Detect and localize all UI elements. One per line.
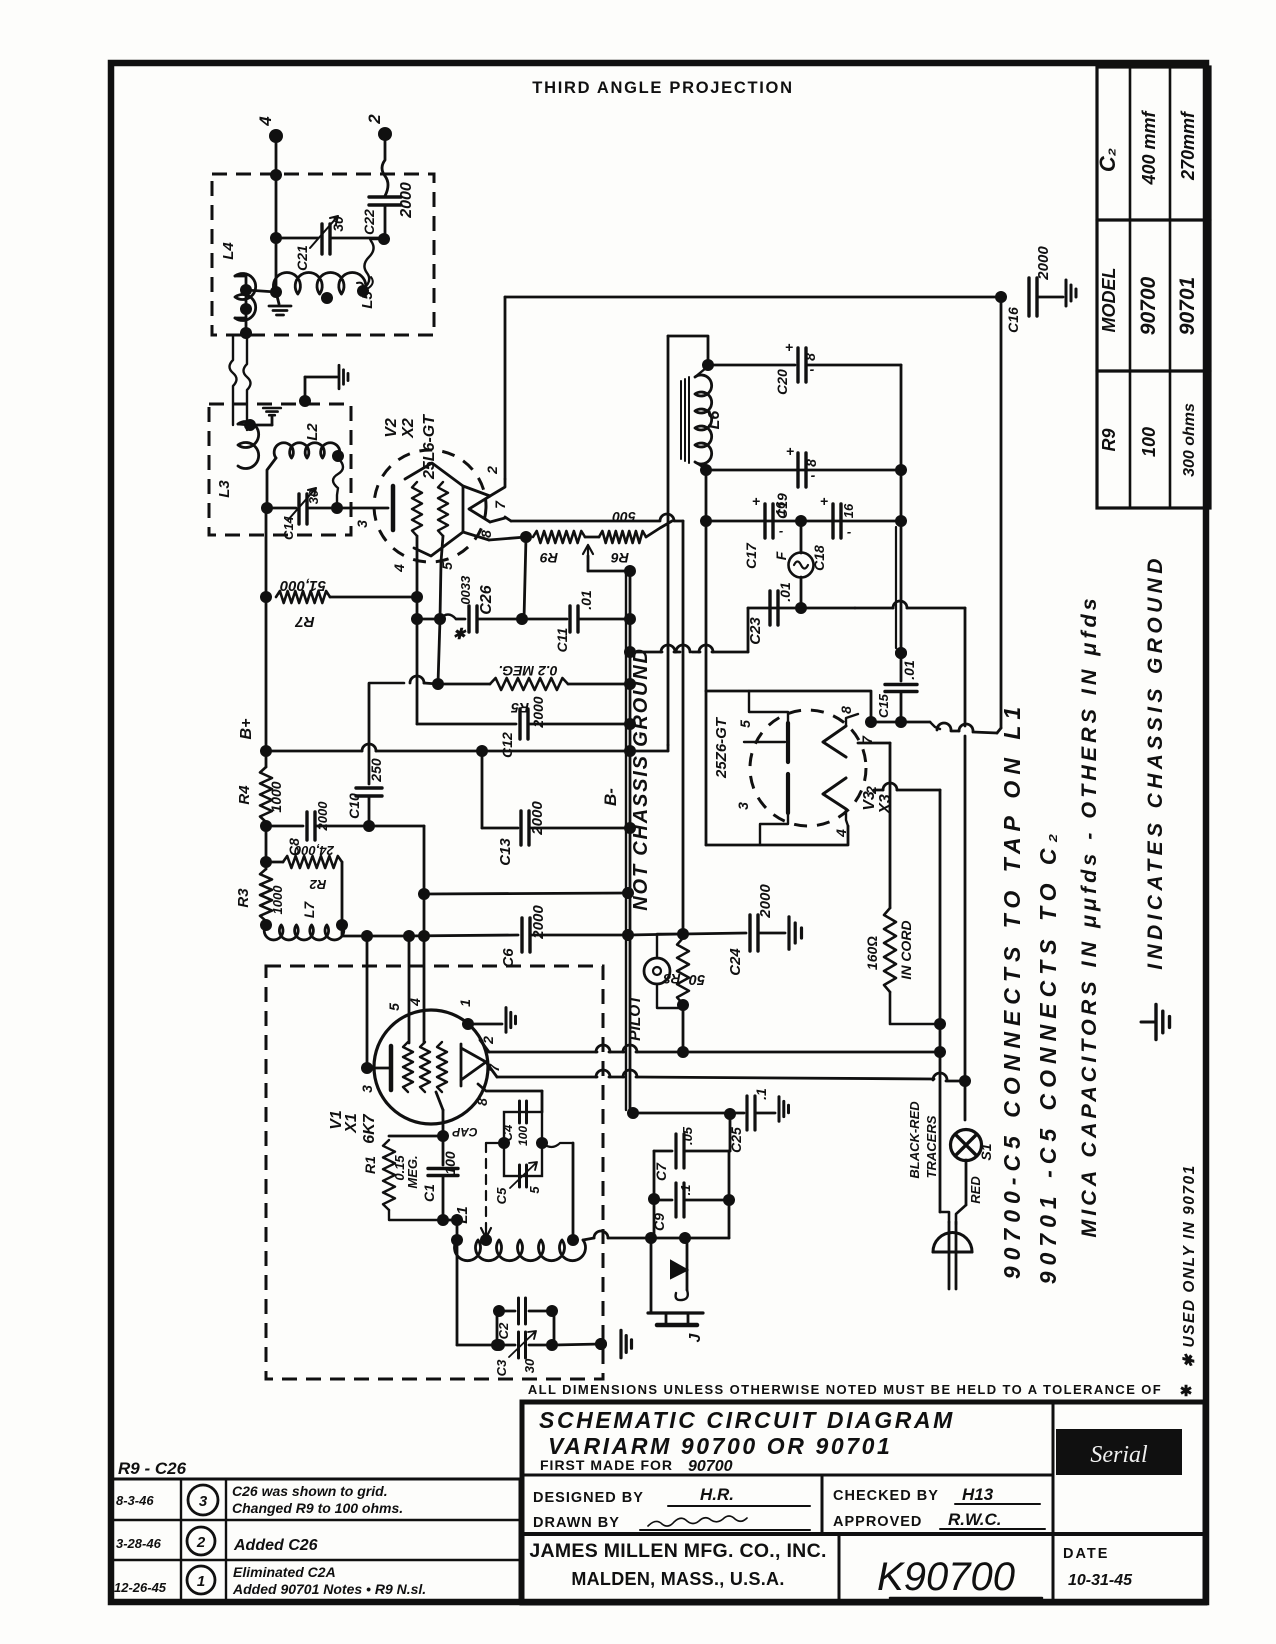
svg-text:✱ USED ONLY IN 90701: ✱ USED ONLY IN 90701 xyxy=(1181,1164,1198,1368)
V2 cathode xyxy=(391,486,396,530)
B- row xyxy=(424,893,628,894)
svg-text:R1: R1 xyxy=(362,1156,378,1174)
svg-text:1: 1 xyxy=(197,1573,205,1590)
svg-text:90700: 90700 xyxy=(1137,276,1160,335)
svg-text:6K7: 6K7 xyxy=(361,1113,378,1143)
svg-text:5: 5 xyxy=(527,1186,542,1194)
svg-text:C23: C23 xyxy=(747,617,764,645)
capacitor C15 xyxy=(895,647,907,659)
svg-text:3: 3 xyxy=(199,1493,208,1510)
wire terminal4 to L5 xyxy=(275,143,278,292)
V3 surround wiring xyxy=(706,691,871,717)
ground for L3 xyxy=(250,424,272,427)
svg-text:MALDEN, MASS., U.S.A.: MALDEN, MASS., U.S.A. xyxy=(571,1569,784,1589)
svg-text:NOT CHASSIS GROUND: NOT CHASSIS GROUND xyxy=(630,647,652,911)
svg-text:SCHEMATIC CIRCUIT DIAGRAM: SCHEMATIC CIRCUIT DIAGRAM xyxy=(539,1407,955,1433)
top row to C16 xyxy=(505,296,1001,299)
svg-text:C10: C10 xyxy=(346,793,362,819)
svg-text:C26 was shown to grid.: C26 was shown to grid. xyxy=(232,1483,388,1499)
link to L1 left xyxy=(443,1219,457,1222)
C16 drop wire xyxy=(1000,297,1003,728)
capacitor C13 xyxy=(481,751,484,828)
svg-text:8: 8 xyxy=(478,530,494,538)
svg-text:C7: C7 xyxy=(653,1162,669,1181)
svg-text:24,000: 24,000 xyxy=(293,843,335,858)
L6 bottom row xyxy=(700,464,712,476)
svg-text:90701 -C5 CONNECTS TO C₂: 90701 -C5 CONNECTS TO C₂ xyxy=(1035,828,1061,1285)
V3 pin5/3 internal leads xyxy=(749,691,788,723)
V2 pin5 bus xyxy=(440,562,441,619)
wire C14 to V2 pin3 xyxy=(337,507,388,510)
capacitor C26 xyxy=(417,618,440,621)
svg-text:+: + xyxy=(752,493,760,509)
svg-text:3: 3 xyxy=(359,1085,375,1093)
svg-text:C17: C17 xyxy=(743,542,759,569)
svg-text:DESIGNED BY: DESIGNED BY xyxy=(533,1490,644,1506)
svg-text:2000: 2000 xyxy=(530,696,546,728)
svg-text:L7: L7 xyxy=(301,901,317,919)
svg-text:R4: R4 xyxy=(236,785,253,805)
capacitor C23 xyxy=(768,591,771,625)
svg-text:✱: ✱ xyxy=(1180,1383,1193,1400)
wire terminal2 to C22 xyxy=(382,141,388,197)
capacitor C5 (trimmer) xyxy=(518,1165,521,1187)
svg-text:2: 2 xyxy=(365,114,384,125)
svg-text:R3: R3 xyxy=(235,888,252,908)
capacitor C8 row xyxy=(266,825,303,828)
svg-text:MODEL: MODEL xyxy=(1099,268,1119,333)
svg-text:C11: C11 xyxy=(554,627,570,652)
AC plug xyxy=(933,1233,972,1252)
svg-text:2: 2 xyxy=(196,1534,206,1551)
svg-text:8: 8 xyxy=(474,1098,490,1106)
chassis ground legend symbol xyxy=(1141,1021,1156,1024)
V1 shield box (dashed) xyxy=(266,966,603,1379)
S1 bus xyxy=(964,736,967,1076)
svg-text:3: 3 xyxy=(354,520,370,528)
svg-text:Eliminated C2A: Eliminated C2A xyxy=(233,1564,336,1580)
svg-text:100: 100 xyxy=(516,1126,530,1146)
V2 pin 7 lead xyxy=(490,518,505,522)
svg-text:C1: C1 xyxy=(421,1184,437,1202)
V2 pin 2 lead xyxy=(463,479,505,496)
L6 top lead xyxy=(668,336,708,361)
V3 pin2 to plug xyxy=(874,789,883,792)
svg-text:X2: X2 xyxy=(400,418,417,439)
C20 row xyxy=(708,364,795,367)
R6 wiper arrow xyxy=(583,545,593,556)
V2 pin 4 lead xyxy=(416,536,419,562)
svg-text:500: 500 xyxy=(612,509,636,525)
capacitor C22 xyxy=(369,195,401,198)
svg-text:C22: C22 xyxy=(361,209,377,235)
svg-text:25L6-GT: 25L6-GT xyxy=(421,414,438,480)
svg-text:8: 8 xyxy=(803,459,819,467)
resistor R8 xyxy=(677,938,689,1004)
capacitor C21 (trimmer) xyxy=(276,237,318,240)
F fuse circle xyxy=(795,515,807,527)
V3 heater to 160ohm xyxy=(858,742,890,745)
inductor L6 xyxy=(680,381,682,459)
svg-text:C9: C9 xyxy=(651,1213,667,1231)
svg-text:X1: X1 xyxy=(343,1113,360,1134)
svg-text:C21: C21 xyxy=(294,245,310,271)
svg-text:Changed R9 to 100 ohms.: Changed R9 to 100 ohms. xyxy=(232,1500,403,1516)
switch to plug xyxy=(965,1160,968,1205)
svg-text:16: 16 xyxy=(841,503,856,518)
svg-text:CHECKED BY: CHECKED BY xyxy=(833,1488,939,1504)
capacitor C4 xyxy=(518,1101,521,1123)
svg-text:L3: L3 xyxy=(216,480,233,498)
V1 pin 1 and ground xyxy=(462,1018,474,1030)
svg-text:R9: R9 xyxy=(1099,428,1119,451)
svg-text:C3: C3 xyxy=(494,1359,509,1376)
svg-text:X3: X3 xyxy=(877,794,894,815)
V1 pin3 xyxy=(361,1062,373,1074)
svg-text:1: 1 xyxy=(457,999,473,1007)
pin5 tie to R5 row xyxy=(438,619,440,684)
svg-text:C20: C20 xyxy=(774,369,790,395)
svg-text:L5: L5 xyxy=(359,291,376,309)
svg-text:4: 4 xyxy=(391,564,407,573)
svg-text:.1: .1 xyxy=(753,1088,769,1100)
ground in L4 box xyxy=(276,292,279,304)
V1 pin 8 xyxy=(478,1084,542,1091)
svg-text:FIRST MADE FOR: FIRST MADE FOR xyxy=(540,1457,673,1473)
svg-text:C2: C2 xyxy=(496,1322,511,1339)
svg-text:100: 100 xyxy=(1139,427,1159,457)
capacitor C20 xyxy=(796,348,799,382)
resistor R3 xyxy=(260,869,272,921)
svg-text:Added C26: Added C26 xyxy=(233,1537,318,1554)
title block frame xyxy=(522,1402,1205,1603)
svg-text:250: 250 xyxy=(368,758,384,783)
svg-text:30: 30 xyxy=(522,1358,537,1373)
svg-text:2000: 2000 xyxy=(398,182,415,219)
svg-text:DRAWN BY: DRAWN BY xyxy=(533,1515,620,1531)
V3 output row xyxy=(871,721,901,724)
svg-text:CAP: CAP xyxy=(451,1125,477,1139)
L1 left drop xyxy=(456,1240,459,1345)
resistor R1 xyxy=(389,1135,443,1138)
tube V3 envelope (dashed) xyxy=(750,710,866,826)
inductor L3 xyxy=(238,422,259,469)
svg-text:100: 100 xyxy=(442,1151,458,1175)
svg-text:5: 5 xyxy=(737,720,753,728)
svg-text:BLACK-RED: BLACK-RED xyxy=(907,1101,922,1179)
V3 cathode chevrons xyxy=(823,726,846,757)
svg-text:160Ω: 160Ω xyxy=(864,936,880,970)
capacitor C1 xyxy=(442,1136,445,1165)
svg-text:2: 2 xyxy=(480,1036,496,1045)
capacitor C14 (trimmer) xyxy=(267,507,296,510)
V1 plate chevron xyxy=(461,1044,486,1086)
V1 cathode xyxy=(389,1046,394,1090)
C4C5 right lead xyxy=(542,1143,573,1147)
svg-text:C₂: C₂ xyxy=(1095,148,1120,172)
svg-text:8: 8 xyxy=(802,353,818,361)
capacitor C25 xyxy=(745,1096,748,1130)
svg-text:270mmf: 270mmf xyxy=(1178,110,1198,181)
svg-text:R7: R7 xyxy=(295,613,315,630)
svg-text:16: 16 xyxy=(773,501,788,516)
svg-text:APPROVED: APPROVED xyxy=(833,1514,922,1530)
svg-text:25Z6-GT: 25Z6-GT xyxy=(713,716,730,779)
terminal 4 xyxy=(269,129,283,143)
svg-text:300 ohms: 300 ohms xyxy=(1181,403,1198,477)
model table xyxy=(1097,67,1210,508)
V1 pin 2 row xyxy=(480,1040,489,1052)
bus x630 upper xyxy=(629,571,632,619)
capacitor C6 xyxy=(520,918,523,952)
capacitor C2 xyxy=(497,1310,515,1313)
shield box L4 L5 xyxy=(212,174,434,335)
svg-text:3: 3 xyxy=(735,802,751,810)
wire C23 to B- bus xyxy=(630,651,662,654)
capacitor C17 xyxy=(763,504,766,538)
C23 row xyxy=(748,607,855,610)
svg-text:JAMES MILLEN MFG. CO., INC.: JAMES MILLEN MFG. CO., INC. xyxy=(529,1540,826,1562)
svg-text:DATE: DATE xyxy=(1063,1546,1109,1562)
bottom ground xyxy=(554,1344,601,1345)
svg-text:400 mmf: 400 mmf xyxy=(1139,109,1159,185)
svg-text:R9 - C26: R9 - C26 xyxy=(118,1459,187,1478)
switch S1 xyxy=(951,1130,982,1161)
L6 bus down xyxy=(705,470,708,521)
svg-text:1000: 1000 xyxy=(270,885,285,915)
svg-text:F: F xyxy=(773,551,789,560)
capacitor C11 xyxy=(522,618,567,621)
V2 plate riser to top row xyxy=(504,297,507,479)
cathode tie from R9 xyxy=(524,537,526,619)
svg-text:ALL DIMENSIONS UNLESS OTHERWIS: ALL DIMENSIONS UNLESS OTHERWISE NOTED MU… xyxy=(528,1382,1162,1397)
svg-text:+: + xyxy=(820,493,828,509)
svg-text:2000: 2000 xyxy=(315,801,330,832)
C17 C18 row xyxy=(706,520,901,523)
svg-text:INDICATES CHASSIS GROUND: INDICATES CHASSIS GROUND xyxy=(1144,554,1167,970)
svg-text:VARIARM 90700 OR 90701: VARIARM 90700 OR 90701 xyxy=(548,1433,892,1459)
svg-text:C16: C16 xyxy=(1005,307,1021,333)
capacitor C10 xyxy=(368,684,371,784)
svg-text:-: - xyxy=(811,467,816,483)
svg-text:90700-C5 CONNECTS TO TAP ON L1: 90700-C5 CONNECTS TO TAP ON L1 xyxy=(999,701,1025,1279)
svg-text:R6: R6 xyxy=(611,550,629,566)
svg-text:C15: C15 xyxy=(876,693,891,718)
svg-text:3-28-46: 3-28-46 xyxy=(116,1536,162,1551)
svg-text:L2: L2 xyxy=(304,423,321,441)
svg-text:2: 2 xyxy=(484,466,500,475)
capacitor C18 xyxy=(831,504,834,538)
ground stub above L2 xyxy=(299,395,311,407)
resistor R4 xyxy=(260,767,272,822)
C7 C9 box xyxy=(729,1114,732,1151)
svg-text:2000: 2000 xyxy=(530,905,547,940)
left bus down xyxy=(265,597,268,767)
svg-text:MEG.: MEG. xyxy=(405,1155,420,1188)
svg-text:90700: 90700 xyxy=(688,1458,733,1475)
svg-text:L1: L1 xyxy=(454,1206,471,1224)
V1 pins 4 5 risers xyxy=(408,936,411,1043)
V3 bus down xyxy=(705,521,708,691)
svg-text:7: 7 xyxy=(486,1063,502,1072)
svg-text:J: J xyxy=(687,1332,704,1342)
serial black box xyxy=(1056,1429,1182,1475)
svg-text:-: - xyxy=(779,523,783,538)
svg-text:+: + xyxy=(785,339,793,355)
svg-text:R9: R9 xyxy=(540,550,558,566)
right bus from C20 xyxy=(900,365,903,470)
tube V1 envelope xyxy=(374,1010,488,1124)
row to C25 xyxy=(633,1112,744,1115)
svg-text:B-: B- xyxy=(601,788,620,806)
right bus x901 lower (doubled) xyxy=(900,521,903,653)
svg-text:L6: L6 xyxy=(706,411,723,430)
svg-text:✱: ✱ xyxy=(453,626,467,643)
L1 right row to C7 box xyxy=(583,1238,594,1240)
svg-text:0.2 MEG.: 0.2 MEG. xyxy=(498,663,557,679)
capacitor C9 xyxy=(654,1199,672,1202)
inductor L2 xyxy=(274,443,340,458)
svg-text:.01: .01 xyxy=(777,582,793,602)
svg-text:Added 90701 Notes • R9 N.sl.: Added 90701 Notes • R9 N.sl. xyxy=(232,1581,426,1597)
svg-text:8: 8 xyxy=(838,706,854,714)
V2 grid zigzags xyxy=(412,482,422,536)
bottom left dashed stub xyxy=(595,1338,607,1350)
svg-text:.05: .05 xyxy=(680,1126,695,1145)
svg-text:Serial: Serial xyxy=(1090,1442,1148,1468)
capacitor C24 xyxy=(683,933,746,934)
svg-text:4: 4 xyxy=(833,829,849,838)
svg-text:C13: C13 xyxy=(497,838,514,866)
resistor R9 xyxy=(489,537,526,540)
svg-text:H13: H13 xyxy=(962,1485,994,1504)
svg-text:2000: 2000 xyxy=(529,801,546,836)
svg-text:1000: 1000 xyxy=(268,781,284,812)
capacitor C16 xyxy=(995,291,1007,303)
svg-text:C14: C14 xyxy=(281,515,296,540)
capacitor box C4 C5 xyxy=(504,1112,542,1176)
svg-text:12-26-45: 12-26-45 xyxy=(114,1580,167,1595)
svg-text:50: 50 xyxy=(689,971,705,987)
svg-text:.01: .01 xyxy=(901,660,917,680)
V1 pin 7 row xyxy=(486,1062,497,1077)
svg-text:R8: R8 xyxy=(663,971,681,986)
resistor R7 xyxy=(265,509,268,597)
svg-text:C26: C26 xyxy=(478,585,495,614)
svg-text:R.W.C.: R.W.C. xyxy=(948,1510,1002,1529)
svg-text:MICA CAPACITORS IN μμfds - OTH: MICA CAPACITORS IN μμfds - OTHERS IN μfd… xyxy=(1077,594,1101,1237)
pilot lamp xyxy=(657,934,683,958)
svg-text:IN CORD: IN CORD xyxy=(898,920,914,979)
V2 pin 8 lead xyxy=(463,532,489,540)
svg-text:2000: 2000 xyxy=(1035,246,1052,281)
resistor R6 (pot) xyxy=(599,531,646,543)
resistor 160 ohm in cord xyxy=(884,908,896,992)
svg-text:-: - xyxy=(810,361,815,377)
svg-text:H.R.: H.R. xyxy=(700,1485,734,1504)
svg-text:C24: C24 xyxy=(727,948,744,976)
inductor L5 xyxy=(273,273,365,294)
capacitor C12 row xyxy=(417,723,516,726)
twisted feed line xyxy=(230,335,237,425)
V2 pin4 bus xyxy=(416,562,419,724)
shield box L3 L2 xyxy=(209,404,351,535)
row 608 to right bus xyxy=(855,607,893,610)
svg-text:R2: R2 xyxy=(309,877,326,892)
capacitor C3 (trimmer) xyxy=(497,1344,515,1347)
capacitor box C2 C3 xyxy=(457,1344,497,1347)
svg-text:TRACERS: TRACERS xyxy=(924,1115,939,1178)
svg-text:THIRD ANGLE PROJECTION: THIRD ANGLE PROJECTION xyxy=(532,79,793,97)
svg-text:.1: .1 xyxy=(678,1185,693,1196)
V2 pin 5 lead xyxy=(441,536,443,562)
svg-text:90701: 90701 xyxy=(1176,277,1199,335)
V2 beam chevron xyxy=(469,496,490,522)
svg-text:V2: V2 xyxy=(383,418,400,438)
phone jack J xyxy=(650,1238,653,1313)
inductor L4 xyxy=(235,274,256,321)
svg-text:B+: B+ xyxy=(238,719,255,740)
svg-text:.01: .01 xyxy=(578,590,594,610)
svg-text:4: 4 xyxy=(256,116,275,127)
svg-text:2000: 2000 xyxy=(757,884,774,919)
not chassis ground bus (double line) xyxy=(625,572,627,1110)
svg-text:K90700: K90700 xyxy=(877,1555,1015,1599)
V1 grids xyxy=(403,1042,413,1092)
branch to pilot bus xyxy=(682,521,685,934)
svg-text:RED: RED xyxy=(968,1176,983,1204)
svg-text:L4: L4 xyxy=(220,242,237,260)
V2 pin7 row xyxy=(505,517,511,521)
C6 row xyxy=(341,925,344,936)
svg-text:C5: C5 xyxy=(494,1187,509,1204)
svg-text:S1: S1 xyxy=(978,1143,994,1160)
svg-text:5: 5 xyxy=(386,1003,402,1011)
L6 box left edge xyxy=(667,336,670,745)
svg-text:30: 30 xyxy=(330,216,346,232)
V2 plate (hexagon) xyxy=(405,463,463,556)
V3 plates xyxy=(786,723,790,762)
terminal 2 xyxy=(378,127,392,141)
svg-text:C12: C12 xyxy=(499,732,515,758)
tube V2 envelope (dashed) xyxy=(374,450,486,562)
svg-text:7: 7 xyxy=(492,500,508,509)
inductor L7 xyxy=(260,919,272,931)
svg-text:4: 4 xyxy=(407,998,423,1007)
inductor L1 xyxy=(451,1234,463,1246)
svg-text:10-31-45: 10-31-45 xyxy=(1068,1572,1133,1589)
svg-text:+: + xyxy=(786,443,794,459)
C5 tap dashed link and arrow xyxy=(486,1142,504,1144)
capacitor C7 xyxy=(654,1150,672,1153)
svg-text:.0033: .0033 xyxy=(458,575,473,608)
resistor R5 xyxy=(369,682,404,685)
V1 grid cap lead xyxy=(436,1092,443,1110)
svg-text:30: 30 xyxy=(306,489,321,504)
svg-text:8-3-46: 8-3-46 xyxy=(116,1493,154,1508)
resistor R2 row xyxy=(265,826,268,869)
capacitor C19 xyxy=(796,453,799,487)
svg-text:51,000: 51,000 xyxy=(279,577,326,594)
svg-text:-: - xyxy=(847,524,851,539)
